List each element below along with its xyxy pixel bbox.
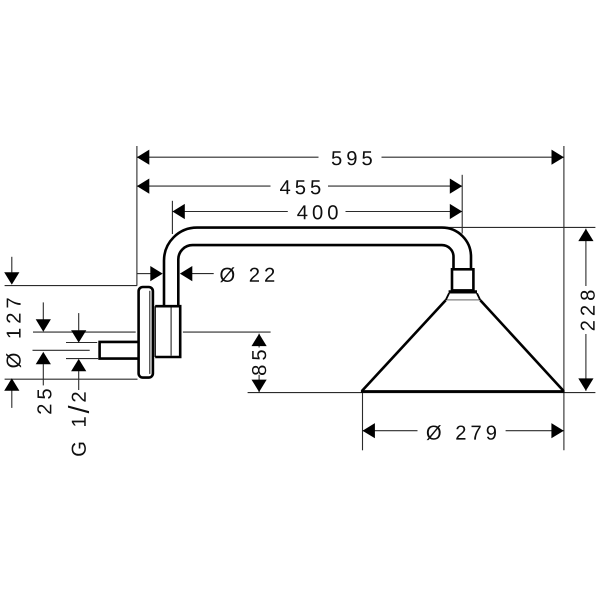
dimension 455 xyxy=(137,179,462,195)
shower arm pipe xyxy=(164,228,471,307)
dimension 595 xyxy=(137,150,564,166)
extension line arm left axis xyxy=(171,201,173,234)
connector nut xyxy=(452,269,473,290)
cone shower head xyxy=(361,300,565,391)
dimension diameter 279 xyxy=(363,423,564,440)
dimension diameter 127 xyxy=(4,257,21,408)
extension line head right edge xyxy=(563,146,565,450)
dimension G 1/2 xyxy=(68,313,89,456)
extension line plate bottom level xyxy=(5,378,138,380)
dimension diameter 22 xyxy=(137,266,274,282)
extension line nipple bottom xyxy=(66,358,98,360)
extension line head bottom level xyxy=(248,392,596,394)
escutcheon body xyxy=(155,306,180,357)
extension line nipple center xyxy=(33,349,90,351)
extension line arm right axis xyxy=(461,175,463,234)
extension line inlet axis right segment xyxy=(183,331,271,333)
wall plate xyxy=(139,287,153,378)
extension line plate top level xyxy=(5,285,137,287)
supply nipple G1/2 xyxy=(100,342,140,359)
extension line arm top level xyxy=(412,226,595,228)
dimension 85 xyxy=(252,334,267,392)
extension line nipple top xyxy=(66,342,97,344)
dimension 228 xyxy=(578,229,595,391)
dimension 400 xyxy=(172,204,462,220)
extension line head left edge xyxy=(362,392,364,451)
extension line inlet axis left segment xyxy=(33,331,136,333)
extension line wall face datum xyxy=(136,146,138,286)
shoulder frustum xyxy=(446,293,481,300)
nut base ring xyxy=(449,290,477,293)
dimension 25 xyxy=(36,302,52,413)
